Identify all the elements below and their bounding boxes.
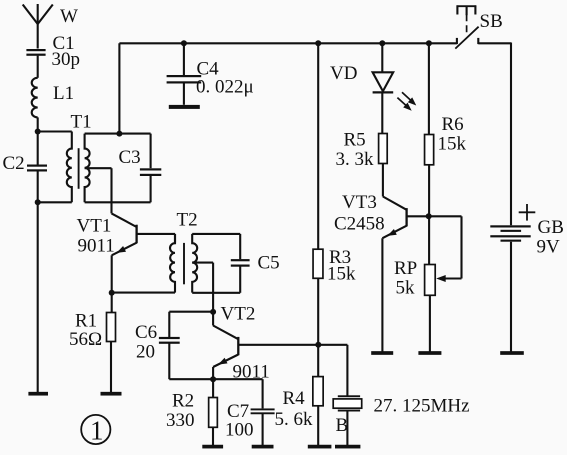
wire VD to R5 xyxy=(381,92,383,133)
resistor R6 xyxy=(425,135,434,165)
node G collector junction xyxy=(315,342,321,348)
wire node A to T1 primary top xyxy=(38,130,72,132)
svg-text:56Ω: 56Ω xyxy=(69,329,102,350)
node H xyxy=(426,213,432,219)
switch SB left contact tick xyxy=(456,38,458,44)
ground RP xyxy=(418,351,441,355)
wire rail to VD xyxy=(381,43,383,72)
svg-text:VT2: VT2 xyxy=(221,304,256,325)
wire C7 to ground xyxy=(262,413,264,445)
transformer T1 secondary winding xyxy=(85,134,90,203)
wire C5 bottom xyxy=(239,266,241,293)
resistor R4 xyxy=(313,377,323,406)
battery GB plate long 1 xyxy=(490,225,530,227)
transformer T1 core xyxy=(78,148,80,189)
wire RP to ground xyxy=(429,295,431,351)
transistor VT1 collector xyxy=(137,233,175,235)
positive rail xyxy=(119,42,457,44)
svg-text:9011: 9011 xyxy=(233,362,270,383)
capacitor C5 xyxy=(231,259,250,261)
wire T1 primary bottom to node B xyxy=(38,201,72,203)
transistor VT1 emitter xyxy=(112,243,137,256)
wire T1 tap xyxy=(85,167,112,169)
wire T1 secondary top to node C xyxy=(85,133,120,135)
svg-text:15k: 15k xyxy=(327,264,356,285)
capacitor C2 xyxy=(27,165,47,167)
wire C2 to node B xyxy=(37,170,39,202)
svg-text:330: 330 xyxy=(166,410,195,431)
ground left column xyxy=(28,392,48,396)
wire node F to R2 xyxy=(212,379,214,397)
transformer T2 secondary winding xyxy=(192,234,197,293)
ground VT3 emitter xyxy=(371,351,393,355)
node R6 junction xyxy=(426,40,432,46)
svg-text:C2: C2 xyxy=(3,153,25,174)
svg-text:T2: T2 xyxy=(177,210,198,231)
node R3 junction xyxy=(315,40,321,46)
svg-text:0. 022μ: 0. 022μ xyxy=(196,77,254,98)
wire node E to VT2 base xyxy=(212,312,214,326)
svg-text:T1: T1 xyxy=(71,112,92,133)
switch SB blade xyxy=(455,27,478,49)
svg-text:R6: R6 xyxy=(442,114,464,135)
svg-text:C3: C3 xyxy=(119,147,141,168)
node E base of VT2 xyxy=(210,309,216,315)
wire R2 to ground xyxy=(212,427,214,445)
battery GB plate long 2 xyxy=(490,235,530,237)
wire node G to R4 xyxy=(317,345,319,377)
node C4 junction xyxy=(181,40,187,46)
node C xyxy=(116,131,122,137)
transistor VT3 collector xyxy=(407,215,462,217)
LED VD light arrow 2 xyxy=(397,98,407,107)
switch SB actuator dashed link xyxy=(466,14,468,36)
figure number circled 1 xyxy=(81,415,110,444)
battery GB plus sign xyxy=(519,211,536,213)
wire R5 to VT3 base xyxy=(382,164,384,197)
svg-text:B: B xyxy=(336,415,349,436)
wire node C to C3 xyxy=(119,133,150,135)
transformer T1 primary winding xyxy=(67,132,72,203)
wire R3 to node G xyxy=(317,278,319,345)
transistor VT3 bar xyxy=(405,208,407,226)
node F emitter junction xyxy=(210,376,216,382)
transistor VT2 bar xyxy=(237,337,239,355)
wire C1 to L1 xyxy=(37,56,39,78)
wire T2 secondary top to C5 xyxy=(192,233,240,235)
svg-text:27. 125MHz: 27. 125MHz xyxy=(374,396,470,417)
wire node C up to rail xyxy=(118,43,120,133)
capacitor C7 xyxy=(251,408,275,410)
wire VT3 emitter to ground xyxy=(381,238,383,351)
switch SB right contact tick xyxy=(477,38,479,44)
node VD junction xyxy=(379,40,385,46)
switch SB button cap xyxy=(457,5,477,7)
svg-text:VD: VD xyxy=(330,63,357,84)
transistor VT2 emitter xyxy=(213,355,238,368)
svg-text:R5: R5 xyxy=(344,130,366,151)
potentiometer RP box xyxy=(425,265,436,296)
ground R1 xyxy=(101,392,122,396)
wire RP wiper loop xyxy=(460,216,462,278)
wire rail to R6 xyxy=(428,43,430,134)
ground C4 xyxy=(169,105,200,109)
LED VD triangle xyxy=(373,72,394,91)
svg-text:9011: 9011 xyxy=(78,236,115,257)
svg-text:5. 6k: 5. 6k xyxy=(275,409,314,430)
ground crystal xyxy=(335,445,360,449)
wire R1 to ground xyxy=(110,342,112,393)
svg-text:20: 20 xyxy=(136,342,155,363)
svg-text:30p: 30p xyxy=(52,49,81,70)
wire VT1 emitter down xyxy=(111,255,113,292)
resistor R2 xyxy=(209,398,218,428)
wire C6 to emitter line xyxy=(168,343,170,380)
capacitor C6 xyxy=(159,337,180,339)
svg-text:C6: C6 xyxy=(135,322,157,343)
svg-text:1: 1 xyxy=(90,415,104,445)
svg-text:5k: 5k xyxy=(396,278,416,299)
svg-text:VT3: VT3 xyxy=(342,192,377,213)
transistor VT3 emitter xyxy=(382,226,406,239)
node B xyxy=(35,199,41,205)
svg-text:VT1: VT1 xyxy=(77,216,112,237)
wire to C7 xyxy=(262,379,264,408)
wire C4 to ground xyxy=(183,82,185,104)
svg-text:3. 3k: 3. 3k xyxy=(336,149,375,170)
wire T1 secondary bottom xyxy=(85,201,151,203)
capacitor C3 xyxy=(140,168,161,170)
capacitor C4 xyxy=(167,75,202,77)
svg-text:C5: C5 xyxy=(258,253,280,274)
resistor R1 xyxy=(107,313,116,342)
wire VT2 emitter down xyxy=(212,367,214,379)
wire L1 to node A xyxy=(37,117,39,131)
svg-text:R4: R4 xyxy=(283,388,306,409)
svg-text:100: 100 xyxy=(225,420,254,441)
svg-text:SB: SB xyxy=(480,11,503,32)
ground C7 xyxy=(252,445,274,449)
ground GB xyxy=(500,351,524,355)
crystal B xyxy=(338,395,360,397)
resistor R3 xyxy=(313,249,323,278)
wire R6 to node H xyxy=(428,165,430,217)
wire T1 tap diagonal to VT1 xyxy=(112,213,137,227)
inductor L1 xyxy=(32,78,38,118)
wire collector to crystal xyxy=(346,345,348,396)
resistor R5 xyxy=(379,134,388,164)
wire rail to R3 xyxy=(317,43,319,249)
wire node E to C6 xyxy=(169,311,213,313)
svg-text:R2: R2 xyxy=(172,391,194,412)
wire GB to ground xyxy=(510,242,512,352)
capacitor C1 xyxy=(26,49,45,51)
transistor VT2 collector xyxy=(238,344,347,346)
transformer T2 core xyxy=(183,243,185,284)
svg-text:RP: RP xyxy=(394,258,417,279)
svg-text:W: W xyxy=(60,6,78,27)
wire T2 tap xyxy=(192,262,213,264)
battery GB plate short 1 xyxy=(501,230,522,232)
svg-text:C2458: C2458 xyxy=(334,214,385,235)
wire R4 to ground xyxy=(317,406,319,445)
wire crystal to ground xyxy=(346,412,348,446)
potentiometer RP wiper arrow xyxy=(436,275,446,282)
svg-text:15k: 15k xyxy=(438,134,467,155)
wire node A to C2 xyxy=(37,132,39,166)
wire node B to ground xyxy=(37,202,39,392)
LED VD light arrow 1 xyxy=(402,92,412,101)
wire VT1 collector to T2 xyxy=(174,234,176,243)
wire C3 to T1 bottom xyxy=(150,175,152,202)
LED VD cathode bar xyxy=(373,91,394,93)
wire SB to battery corner xyxy=(478,42,511,44)
battery GB plate short 2 xyxy=(501,240,522,242)
svg-text:9V: 9V xyxy=(537,237,561,258)
wire node D to R1 xyxy=(111,293,113,313)
ground R2 xyxy=(202,445,223,449)
transistor VT1 bar xyxy=(135,225,137,244)
ground R4 xyxy=(308,445,332,449)
node D emitter junction xyxy=(109,290,115,296)
antenna W xyxy=(37,4,39,49)
transformer T2 primary winding xyxy=(170,234,175,293)
wire rail to C4 xyxy=(183,43,185,75)
wire T2 primary bottom to node D xyxy=(112,292,175,294)
svg-text:L1: L1 xyxy=(53,83,74,104)
svg-text:GB: GB xyxy=(538,217,564,238)
wire node H to RP xyxy=(428,216,430,264)
node A xyxy=(35,129,41,135)
